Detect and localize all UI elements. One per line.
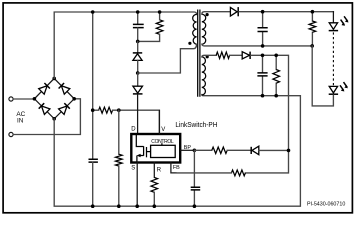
- pin S: [136, 162, 138, 206]
- LED string last LED: [329, 86, 337, 93]
- resistor line-sense lower (vertical): [116, 154, 123, 166]
- LED string first LED: [329, 23, 337, 30]
- svg-text:D: D: [131, 127, 136, 133]
- diode series blocking (cathode down): [137, 73, 139, 86]
- diode BP feed (cathode left): [250, 147, 252, 154]
- wire blocking diode to D pin: [137, 95, 139, 134]
- junction dot bias row/resistor: [274, 54, 278, 58]
- svg-text:PI-5430-060710: PI-5430-060710: [307, 202, 345, 208]
- transformer primary winding: [193, 14, 197, 44]
- diode bias rectifier: [242, 52, 249, 59]
- junction dot clamp node: [136, 40, 140, 44]
- capacitor output C1 column: [262, 12, 264, 46]
- wire rail to clamp cap: [137, 12, 139, 24]
- junction dot V-row / lower resistor: [117, 108, 121, 112]
- capacitor bias: [257, 73, 267, 76]
- pin FB: [171, 162, 176, 173]
- wire clamp cap to clamp node: [137, 28, 139, 41]
- pin BP: [181, 149, 195, 151]
- primary phase dot: [188, 42, 191, 45]
- resistor BP feed: [212, 147, 227, 153]
- resistor bias load column: [275, 55, 277, 95]
- AC input terminal (neutral): [9, 132, 13, 136]
- svg-text:R: R: [157, 168, 162, 174]
- svg-text:BP: BP: [184, 145, 192, 151]
- resistor output bleeder: [309, 21, 316, 32]
- svg-text:S: S: [131, 165, 135, 171]
- junction dot gnd/line-sense: [117, 204, 121, 208]
- diode clamp (cathode up): [133, 52, 142, 54]
- resistor output bleeder column: [311, 12, 313, 46]
- junction dot rail/clamp-resistor: [158, 10, 162, 14]
- junction dot bus/V-row: [91, 108, 95, 112]
- junction dot BP node: [193, 149, 197, 153]
- svg-text:LinkSwitch-PH: LinkSwitch-PH: [175, 120, 217, 129]
- bridge diode upper-left (cathode to DC+): [39, 86, 47, 94]
- junction dot bias return/resistor: [274, 94, 278, 98]
- wire clamp diode to drain node: [137, 60, 139, 73]
- junction dot gnd/BP-cap: [193, 204, 197, 208]
- junction dot gnd/S-pin: [135, 204, 139, 208]
- wire FB row: [176, 172, 231, 174]
- wire V-node down: [118, 110, 120, 154]
- wire rail to clamp resistor: [159, 12, 161, 20]
- junction dot gnd/bus-cap: [91, 204, 95, 208]
- wire primary bottom to drain node: [138, 44, 197, 73]
- bias phase dot: [206, 55, 209, 58]
- wire BP resistor to BP diode: [227, 149, 250, 151]
- resistor bias series: [216, 52, 229, 58]
- junction dot bias row/cap: [261, 54, 265, 58]
- wire AC line to bridge left node: [13, 98, 34, 100]
- wire bus cap column upper: [92, 12, 94, 159]
- wire resistor to V pin: [113, 110, 160, 134]
- junction dot rail/C1: [261, 10, 265, 14]
- wire lower resistor to ground rail: [118, 166, 120, 206]
- junction dot gnd/R-resistor: [153, 204, 157, 208]
- junction dot bias return/cap: [261, 94, 265, 98]
- junction dot return/bleeder/LED-return: [310, 44, 314, 48]
- capacitor DC bus filter: [89, 159, 98, 162]
- resistor bias load: [273, 70, 280, 84]
- junction dot bridge bottom vertex: [52, 117, 56, 121]
- wire DC- bottom rail / bias return: [54, 95, 300, 207]
- wire DC+ top rail from bridge to transformer primary: [54, 12, 196, 78]
- wire LED string return: [312, 46, 333, 106]
- svg-text:V: V: [161, 127, 165, 133]
- transformer core: [198, 10, 200, 97]
- capacitor clamp: [133, 24, 144, 27]
- wire LED string dashed continuation: [332, 32, 334, 85]
- wire BP node to resistor: [194, 149, 211, 151]
- bridge diode upper-right (cathode to DC+): [61, 86, 69, 94]
- wire bias diode to feedback column: [245, 55, 288, 173]
- wire bus cap column lower: [92, 162, 94, 206]
- AC input terminal (line): [9, 97, 13, 101]
- wire output diode to LED string top: [239, 11, 333, 13]
- bridge rectifier diamond leads: [34, 78, 74, 118]
- wire secondary bottom output return: [202, 44, 312, 46]
- wire BP diode to feedback column: [259, 149, 289, 151]
- bridge diode lower-left (cathode to AC line): [42, 106, 50, 114]
- capacitor bias column: [262, 55, 264, 95]
- junction dot bridge left vertex: [33, 97, 37, 101]
- resistor R-pin program: [151, 177, 158, 192]
- transformer secondary winding: [202, 14, 206, 44]
- capacitor output C1: [258, 28, 268, 32]
- wire clamp node to clamp diode: [137, 41, 139, 52]
- wire bus to resistor: [93, 109, 99, 111]
- pin R: [153, 162, 155, 177]
- junction dot rail/bleeder: [311, 10, 315, 14]
- capacitor BP bypass column: [193, 150, 195, 206]
- wire bias resistor to bias diode: [230, 54, 242, 56]
- wire R resistor to ground: [153, 192, 155, 206]
- junction dot drain node: [136, 71, 140, 75]
- wire secondary top to output diode: [202, 12, 230, 15]
- capacitor BP bypass: [191, 187, 201, 190]
- diode output rectifier: [230, 7, 237, 16]
- svg-text:IN: IN: [17, 118, 24, 125]
- junction dot rail/bus-cap: [91, 10, 95, 14]
- junction dot return/C1: [261, 44, 265, 48]
- resistor line-sense upper (horizontal): [99, 107, 113, 113]
- wire clamp resistor to clamp node: [138, 34, 160, 41]
- controller block: [161, 143, 163, 145]
- wire AC neutral to bridge right node: [13, 99, 80, 135]
- junction dot bridge top vertex: [52, 77, 56, 81]
- transformer bias winding: [202, 57, 206, 95]
- junction dot rail/clamp-cap: [136, 10, 140, 14]
- svg-text:FB: FB: [173, 165, 180, 171]
- svg-text:CONTROL: CONTROL: [151, 139, 174, 145]
- transistor internal MOSFET: [136, 135, 143, 156]
- secondary phase dot: [206, 13, 209, 16]
- resistor clamp: [156, 20, 163, 35]
- op IC LinkSwitch-PH outline: [131, 134, 180, 163]
- wire bias winding top: [202, 55, 216, 57]
- bridge diode lower-right (cathode to AC neutral): [59, 106, 67, 114]
- resistor FB divider: [231, 170, 245, 176]
- junction dot bridge right vertex: [72, 97, 76, 101]
- junction dot feedback column / BP row: [287, 149, 291, 153]
- pin V: [158, 111, 160, 134]
